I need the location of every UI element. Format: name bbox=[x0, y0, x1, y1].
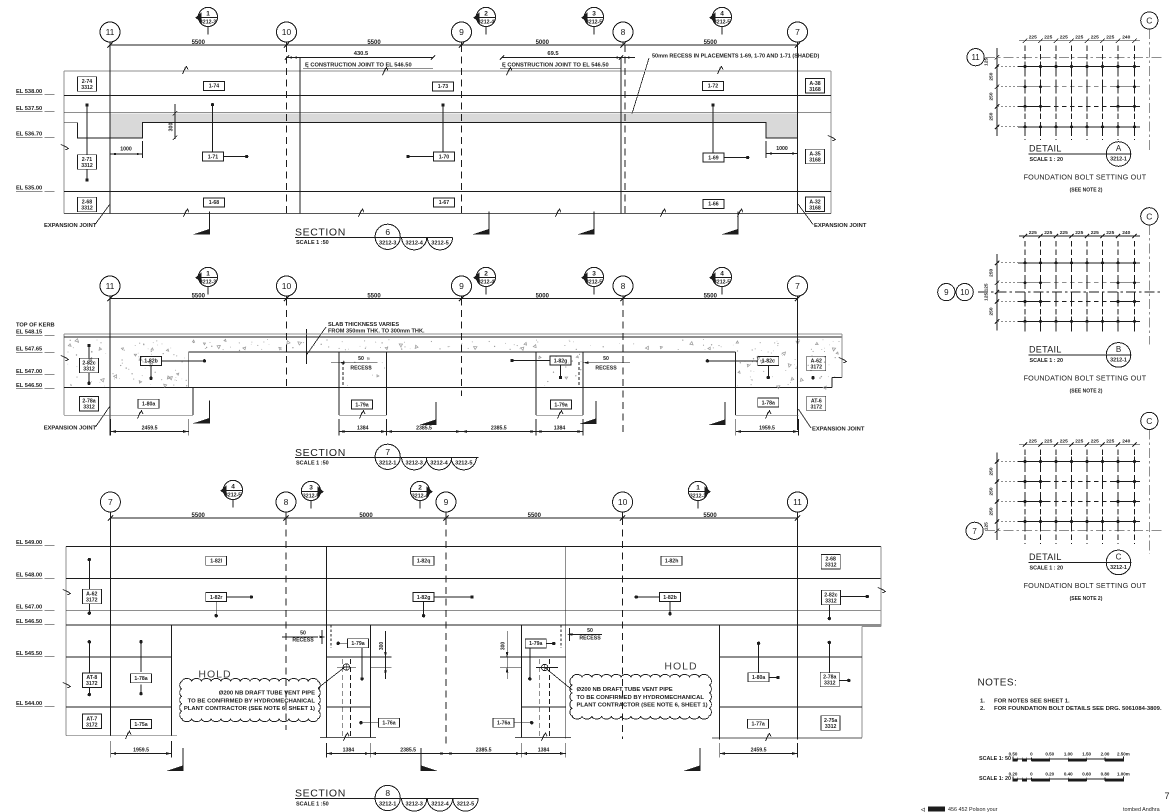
rebar callout 1-82q bbox=[413, 556, 434, 565]
svg-text:0.20: 0.20 bbox=[1045, 772, 1054, 777]
svg-text:9: 9 bbox=[459, 27, 464, 37]
svg-text:C: C bbox=[1116, 553, 1122, 562]
svg-text:3312: 3312 bbox=[81, 85, 93, 91]
detail C top dimension row bbox=[1019, 444, 1140, 446]
dim 1000 right bbox=[766, 153, 798, 155]
svg-text:1-82g: 1-82g bbox=[417, 595, 431, 601]
svg-text:HOLD: HOLD bbox=[664, 661, 697, 673]
label box 1-79a right bbox=[551, 400, 572, 409]
construction joint line at grid 8 bbox=[620, 58, 622, 214]
section cut arrow c bbox=[593, 212, 595, 235]
svg-text:3172: 3172 bbox=[86, 722, 98, 728]
slab line EL 548.00 bbox=[66, 578, 881, 580]
svg-text:1-79a: 1-79a bbox=[351, 641, 364, 647]
svg-text:EL 538.00: EL 538.00 bbox=[16, 89, 42, 95]
vent pipe right (dashed) bbox=[539, 659, 541, 738]
svg-text:1-78a: 1-78a bbox=[134, 676, 147, 682]
svg-text:3312: 3312 bbox=[824, 681, 836, 687]
detail B anchor bolts bbox=[1024, 261, 1027, 264]
rebar callout 2-82c/3312 bbox=[87, 344, 90, 347]
grid bubble 10 section 8 bbox=[613, 492, 633, 512]
detail marker 1/3212-3 section 8 bbox=[688, 481, 707, 500]
svg-text:A: A bbox=[1116, 144, 1122, 153]
svg-text:1-72: 1-72 bbox=[708, 84, 718, 90]
grid bubble 8 bbox=[613, 22, 633, 42]
label box 2-68/3312 s8 right bbox=[821, 554, 840, 569]
svg-text:C: C bbox=[1146, 212, 1152, 222]
svg-text:225: 225 bbox=[1044, 230, 1052, 236]
svg-text:300: 300 bbox=[379, 642, 385, 651]
bottom strip under block A bbox=[64, 414, 193, 416]
detail C grid bubble 7 bbox=[966, 522, 983, 539]
section cut arrow s8 c bbox=[699, 748, 701, 771]
grid line 8 centerline bbox=[624, 45, 626, 214]
svg-text:EXPANSION JOINT: EXPANSION JOINT bbox=[44, 223, 97, 229]
svg-text:3212-4: 3212-4 bbox=[405, 241, 423, 247]
svg-text:5500: 5500 bbox=[192, 294, 206, 300]
svg-text:3212-5: 3212-5 bbox=[431, 241, 448, 247]
detail marker 2/3212-4 bbox=[476, 7, 495, 26]
dim 2385.5 left s7 bbox=[387, 431, 462, 433]
svg-text:1384: 1384 bbox=[343, 747, 355, 753]
svg-text:7: 7 bbox=[108, 497, 113, 507]
detail marker 4/3212-5 bbox=[712, 7, 731, 26]
label box 1-73 bbox=[433, 82, 454, 91]
detail A left dimension line bbox=[996, 48, 998, 136]
svg-text:250: 250 bbox=[989, 487, 995, 495]
label box 1-77a bbox=[748, 719, 769, 728]
svg-text:1-66: 1-66 bbox=[708, 202, 718, 208]
svg-text:1-71: 1-71 bbox=[208, 154, 218, 160]
detail A top dimension row bbox=[1019, 40, 1140, 42]
EL 544.00 line segments bbox=[66, 706, 171, 708]
recess 50 dim left bbox=[331, 362, 378, 364]
svg-text:125: 125 bbox=[984, 292, 990, 300]
svg-text:3312: 3312 bbox=[825, 724, 837, 730]
svg-text:50: 50 bbox=[587, 628, 593, 634]
svg-text:EL 548.15: EL 548.15 bbox=[16, 330, 42, 336]
revision cloud right bbox=[570, 674, 711, 719]
svg-text:5500: 5500 bbox=[704, 294, 718, 300]
svg-text:240: 240 bbox=[1122, 35, 1130, 41]
svg-text:1: 1 bbox=[696, 485, 700, 492]
label box A-32/3168 bbox=[806, 197, 825, 212]
label box 1-79a left bbox=[352, 400, 373, 409]
svg-text:Ę CONSTRUCTION JOINT TO EL 546: Ę CONSTRUCTION JOINT TO EL 546.50 bbox=[502, 63, 609, 69]
right end step bbox=[831, 378, 833, 388]
cloud leader right bbox=[545, 668, 573, 691]
svg-text:50: 50 bbox=[358, 356, 364, 362]
svg-text:1959.5: 1959.5 bbox=[133, 747, 149, 753]
construction joint dimension 69.5 bbox=[502, 57, 621, 59]
svg-text:7: 7 bbox=[1164, 791, 1169, 801]
section 8 sheet bubble 8/3212-1 bbox=[375, 785, 400, 810]
bottom strip under pedestal 2 bbox=[536, 414, 583, 416]
slab line EL 547.00 bbox=[66, 610, 881, 612]
svg-text:1-78a: 1-78a bbox=[762, 400, 775, 406]
bottom strip under right block bbox=[736, 414, 799, 416]
section cut arrow s7 c bbox=[595, 401, 597, 424]
grid line 10 centerline s7 bbox=[286, 299, 288, 391]
grid bubble 11 section 7 bbox=[100, 276, 120, 296]
detail B grid C centerline bbox=[1148, 225, 1150, 345]
section 7 half bubble 3212-4 bbox=[426, 457, 451, 470]
svg-text:225: 225 bbox=[1106, 438, 1114, 444]
svg-text:1-74: 1-74 bbox=[209, 84, 219, 90]
svg-text:7: 7 bbox=[385, 447, 390, 457]
svg-text:7: 7 bbox=[972, 527, 977, 536]
concrete texture pedestal 2 bbox=[538, 354, 581, 386]
svg-text:EL 545.50: EL 545.50 bbox=[16, 651, 42, 657]
section cut arrow d bbox=[737, 212, 739, 235]
svg-text:125: 125 bbox=[984, 57, 990, 65]
slab line EL 546.50 bbox=[66, 624, 881, 626]
svg-text:11: 11 bbox=[106, 281, 115, 291]
detail B sheet bubble B/3212-1 bbox=[1106, 343, 1131, 368]
revision cloud left bbox=[180, 678, 321, 721]
grid line 7 s8 bbox=[109, 512, 111, 736]
svg-text:RECESS: RECESS bbox=[579, 636, 601, 642]
svg-text:3212-4: 3212-4 bbox=[430, 461, 448, 467]
svg-text:4: 4 bbox=[231, 484, 235, 491]
dim 1000 left bbox=[110, 153, 143, 155]
svg-text:2.00: 2.00 bbox=[1101, 752, 1110, 757]
detail B bolt row lines bbox=[1018, 262, 1140, 264]
dim 1959.5 s8 bbox=[111, 753, 172, 755]
svg-text:FOUNDATION BOLT SETTING OUT: FOUNDATION BOLT SETTING OUT bbox=[1024, 374, 1147, 383]
section cut arrow s8 b bbox=[420, 748, 422, 771]
concrete texture pedestal 1 bbox=[342, 357, 385, 386]
svg-text:225: 225 bbox=[1044, 438, 1052, 444]
rebar callout 1-82r bbox=[206, 593, 227, 602]
svg-text:3312: 3312 bbox=[825, 563, 837, 569]
label box A-38/3168 bbox=[806, 79, 825, 94]
rebar callout 1-82b s8 bbox=[660, 593, 681, 602]
svg-text:3212-4: 3212-4 bbox=[431, 802, 449, 808]
svg-text:3212-1: 3212-1 bbox=[1110, 157, 1127, 163]
right boundary step s8 bbox=[862, 626, 881, 628]
detail C anchor bolt lines (dashed) bbox=[1024, 450, 1026, 544]
svg-text:EL 544.00: EL 544.00 bbox=[16, 701, 42, 707]
svg-text:4: 4 bbox=[720, 11, 724, 18]
svg-text:5000: 5000 bbox=[536, 40, 550, 46]
svg-text:1-82q: 1-82q bbox=[417, 559, 431, 565]
svg-text:1384: 1384 bbox=[554, 425, 566, 431]
svg-text:0.50: 0.50 bbox=[1009, 752, 1018, 757]
svg-text:EL 547.00: EL 547.00 bbox=[16, 369, 42, 375]
bottom formwork line segments (grey) bbox=[66, 735, 177, 737]
bottom strip under pedestal 1 bbox=[339, 414, 387, 416]
section 7 half bubble 3212-3 bbox=[402, 457, 427, 470]
svg-text:3212-5: 3212-5 bbox=[225, 493, 241, 499]
construction joint line at grid 10 bbox=[299, 58, 301, 214]
svg-text:250: 250 bbox=[989, 507, 995, 515]
svg-text:FOUNDATION BOLT SETTING OUT: FOUNDATION BOLT SETTING OUT bbox=[1024, 173, 1147, 182]
detail A grid bubble C bbox=[1141, 12, 1158, 29]
svg-text:EXPANSION JOINT: EXPANSION JOINT bbox=[814, 223, 867, 229]
svg-text:225: 225 bbox=[1060, 438, 1068, 444]
slab top line bbox=[64, 336, 842, 338]
svg-text:FOUNDATION BOLT SETTING OUT: FOUNDATION BOLT SETTING OUT bbox=[1024, 581, 1147, 590]
pedestal 1 recess edge (dashed) bbox=[342, 362, 344, 388]
svg-text:2459.5: 2459.5 bbox=[751, 747, 767, 753]
rebar callout AT-8/3172 bbox=[88, 640, 91, 643]
svg-text:DETAIL: DETAIL bbox=[1029, 552, 1062, 562]
pedestal 2 left edge bbox=[535, 352, 537, 388]
detail C anchor bolts bbox=[1024, 460, 1027, 463]
svg-text:0.40: 0.40 bbox=[1064, 772, 1073, 777]
svg-text:5000: 5000 bbox=[536, 294, 550, 300]
dim 2459.5 bbox=[110, 431, 188, 433]
detail marker 3/3212-5 bbox=[584, 7, 603, 26]
svg-text:1.00: 1.00 bbox=[1064, 752, 1073, 757]
svg-text:SCALE 1 : 20: SCALE 1 : 20 bbox=[1030, 157, 1064, 163]
detail B grid bubble C bbox=[1141, 208, 1158, 225]
svg-text:3212-3: 3212-3 bbox=[379, 240, 396, 246]
right outer boundary section 6 bbox=[830, 71, 832, 214]
svg-text:1-82g: 1-82g bbox=[554, 358, 568, 364]
recess band outline bbox=[64, 123, 110, 138]
svg-text:3212-3: 3212-3 bbox=[405, 802, 422, 808]
svg-text:7: 7 bbox=[795, 27, 800, 37]
detail B grid bubble 9 bbox=[938, 284, 955, 301]
placement joint line x=565.7 bbox=[565, 546, 567, 738]
dim 2459.5 s8 bbox=[720, 753, 798, 755]
svg-text:SCALE 1: 20: SCALE 1: 20 bbox=[979, 776, 1011, 782]
svg-text:1-82c: 1-82c bbox=[762, 359, 775, 365]
label box 1-80a bbox=[138, 399, 159, 408]
svg-text:SCALE 1 :50: SCALE 1 :50 bbox=[296, 460, 329, 466]
bottom boundary line section 6 bbox=[64, 213, 831, 215]
detail A bolt row lines bbox=[1018, 66, 1140, 68]
section cut arrow b bbox=[488, 212, 490, 235]
svg-text:10: 10 bbox=[282, 281, 292, 291]
rebar callout 1-76a left bbox=[379, 718, 400, 727]
svg-text:250: 250 bbox=[989, 92, 995, 100]
svg-text:1-80a: 1-80a bbox=[752, 675, 765, 681]
svg-text:3168: 3168 bbox=[809, 87, 821, 93]
grid line 9 centerline s8 bbox=[445, 518, 447, 744]
svg-text:240: 240 bbox=[1122, 230, 1130, 236]
rebar callout 1-70 bbox=[441, 103, 444, 106]
svg-text:SLAB THICKNESS VARIES: SLAB THICKNESS VARIES bbox=[328, 322, 399, 328]
detail A anchor bolt lines (dashed) bbox=[1024, 46, 1026, 140]
svg-text:225: 225 bbox=[1091, 35, 1099, 41]
svg-text:TO BE CONFIRMED BY HYDROMECHAN: TO BE CONFIRMED BY HYDROMECHANICAL bbox=[577, 695, 705, 701]
svg-text:EL 535.00: EL 535.00 bbox=[16, 186, 42, 192]
detail C bolt row lines bbox=[1018, 461, 1140, 463]
grid line 8 centerline s7 bbox=[622, 299, 624, 435]
svg-text:NOTES:: NOTES: bbox=[978, 677, 1018, 688]
line EL 538.00 bbox=[64, 95, 831, 97]
svg-text:◁: ◁ bbox=[920, 807, 925, 812]
line EL 537.50 bbox=[64, 111, 831, 113]
svg-text:1-75a: 1-75a bbox=[134, 722, 147, 728]
grid dimension line section 8 bbox=[110, 517, 797, 519]
dim 1384 left s7 bbox=[339, 431, 387, 433]
svg-text:1384: 1384 bbox=[357, 425, 369, 431]
svg-text:11: 11 bbox=[971, 53, 980, 62]
grid line 11 through section 6 bbox=[109, 45, 111, 214]
pier 1 right edge bbox=[369, 625, 371, 737]
svg-text:300: 300 bbox=[501, 642, 507, 651]
svg-text:(SEE NOTE 2): (SEE NOTE 2) bbox=[1070, 188, 1103, 194]
dim 2385.5 left s8 bbox=[370, 753, 446, 755]
section 7 half bubble 3212-5 bbox=[451, 457, 476, 470]
grid bubble 11 section 8 bbox=[788, 492, 808, 512]
svg-text:EL 549.00: EL 549.00 bbox=[16, 540, 42, 546]
svg-text:1.: 1. bbox=[980, 699, 985, 705]
shaded 50mm recess band (placements 1-69 to 1-71) bbox=[110, 113, 798, 138]
dim 1384 left s8 bbox=[327, 753, 371, 755]
label box AT-7/3172 bbox=[82, 714, 101, 729]
svg-text:10: 10 bbox=[618, 497, 628, 507]
dim 2385.5 right s8 bbox=[446, 753, 521, 755]
vent pipe left (dashed) bbox=[341, 659, 343, 737]
vertical dim 300 pier 2 bbox=[506, 631, 508, 679]
rebar callout 1-79a right s8 bbox=[525, 639, 546, 648]
svg-text:1-70: 1-70 bbox=[439, 154, 449, 160]
svg-text:EL 546.50: EL 546.50 bbox=[16, 383, 42, 389]
placement joint line x=326.5 bbox=[326, 546, 328, 737]
svg-text:3172: 3172 bbox=[811, 365, 823, 371]
grid line 10 centerline bbox=[286, 45, 288, 214]
section 6 sheet half bubble 3212-4 bbox=[402, 237, 427, 250]
ledge lines pier 1 bbox=[370, 666, 391, 668]
svg-text:1: 1 bbox=[206, 11, 210, 18]
svg-text:2459.5: 2459.5 bbox=[142, 425, 158, 431]
detail marker 2/3212-4 section 8 bbox=[410, 481, 429, 500]
grid line 9 centerline bbox=[461, 45, 463, 214]
grid bubble 10 section 7 bbox=[277, 276, 297, 296]
detail A anchor bolts bbox=[1024, 65, 1027, 68]
grid line 9 centerline s7 bbox=[461, 299, 463, 397]
label box 2-74/3312 bbox=[78, 77, 97, 92]
rebar callout 1-82b bbox=[141, 356, 162, 365]
svg-text:5000: 5000 bbox=[359, 513, 373, 519]
pedestal 1 right edge bbox=[386, 352, 388, 388]
svg-text:RECESS: RECESS bbox=[292, 638, 314, 644]
svg-text:3172: 3172 bbox=[811, 405, 823, 411]
svg-text:240: 240 bbox=[1122, 438, 1130, 444]
svg-text:0.60: 0.60 bbox=[1082, 772, 1091, 777]
rebar callout 1-82l bbox=[206, 556, 227, 565]
label box 2-78a/3312 s7 bbox=[80, 396, 99, 411]
grid bubble 7 section 7 bbox=[788, 276, 808, 296]
svg-text:PLANT CONTRACTOR (SEE NOTE 6,: PLANT CONTRACTOR (SEE NOTE 6, SHEET 1) bbox=[184, 706, 315, 712]
concrete texture top slab band bbox=[192, 339, 734, 351]
kerb top line EL 548.15 (grey) bbox=[64, 333, 842, 335]
svg-text:3312: 3312 bbox=[83, 405, 95, 411]
svg-text:3212-5: 3212-5 bbox=[457, 802, 474, 808]
grid line 11 s8 bbox=[797, 512, 799, 739]
section 8 half bubble 3212-5 bbox=[453, 799, 478, 812]
grid bubble 7 bbox=[788, 22, 808, 42]
detail B grid bubble 10 bbox=[956, 284, 973, 301]
svg-text:3212-1: 3212-1 bbox=[1110, 358, 1127, 364]
vertical dim 300 recess depth bbox=[174, 104, 176, 139]
svg-text:Ø200 NB DRAFT TUBE VENT PIPE: Ø200 NB DRAFT TUBE VENT PIPE bbox=[219, 691, 315, 697]
grid bubble 11 bbox=[100, 22, 120, 42]
section 8 half bubble 3212-4 bbox=[427, 799, 452, 812]
svg-text:225: 225 bbox=[1044, 35, 1052, 41]
rebar callout 1-82c bbox=[758, 356, 779, 365]
svg-text:250: 250 bbox=[989, 112, 995, 120]
svg-text:C: C bbox=[1146, 416, 1152, 426]
svg-text:2: 2 bbox=[418, 485, 422, 492]
svg-text:9: 9 bbox=[444, 497, 449, 507]
detail B anchor bolt lines (dashed) bbox=[1024, 241, 1026, 334]
svg-text:2: 2 bbox=[484, 11, 488, 18]
section 6 sheet bubble 6/3212-3 bbox=[375, 224, 400, 249]
svg-text:tombed Andhra: tombed Andhra bbox=[1123, 807, 1160, 812]
svg-text:1-82l: 1-82l bbox=[210, 559, 222, 565]
grid bubble 8 section 7 bbox=[613, 276, 633, 296]
label box A-35/3168 bbox=[806, 149, 825, 164]
svg-text:SCALE 1: 50: SCALE 1: 50 bbox=[979, 756, 1011, 762]
svg-text:1-73: 1-73 bbox=[438, 84, 448, 90]
svg-text:TO BE CONFIRMED BY HYDROMECHAN: TO BE CONFIRMED BY HYDROMECHANICAL bbox=[188, 698, 316, 704]
svg-text:1-82h: 1-82h bbox=[665, 559, 679, 565]
svg-text:1.00m: 1.00m bbox=[1117, 772, 1130, 777]
svg-text:EXPANSION JOINT: EXPANSION JOINT bbox=[812, 427, 865, 433]
grid line 7 section 7 bbox=[797, 299, 799, 431]
svg-text:3: 3 bbox=[592, 11, 596, 18]
svg-text:225: 225 bbox=[1075, 230, 1083, 236]
detail C left dimension line bbox=[996, 453, 998, 540]
svg-text:3: 3 bbox=[592, 271, 596, 278]
svg-text:EXPANSION JOINT: EXPANSION JOINT bbox=[44, 426, 97, 432]
svg-text:SCALE 1 : 20: SCALE 1 : 20 bbox=[1030, 566, 1064, 572]
detail marker 3/3212-5 section 7 bbox=[584, 267, 603, 286]
grid dimension line section 7 bbox=[110, 298, 798, 300]
svg-text:3212-3: 3212-3 bbox=[200, 280, 216, 286]
detail A sheet bubble A/3212-1 bbox=[1106, 142, 1131, 167]
svg-text:(SEE NOTE 2): (SEE NOTE 2) bbox=[1070, 389, 1103, 395]
svg-text:3212-5: 3212-5 bbox=[586, 280, 602, 286]
svg-text:3168: 3168 bbox=[809, 158, 821, 164]
grid line 8 centerline s8 bbox=[285, 518, 287, 730]
detail A intersection ticks bbox=[1024, 62, 1026, 72]
rebar callout 1-78a s8 bbox=[139, 640, 142, 643]
svg-text:3172: 3172 bbox=[86, 681, 98, 687]
detail B intersection ticks bbox=[1024, 258, 1026, 268]
svg-text:225: 225 bbox=[1060, 35, 1068, 41]
grid dimension line section 6 bbox=[110, 44, 798, 46]
section cut arrow s7 a bbox=[208, 401, 210, 424]
svg-text:50: 50 bbox=[603, 356, 609, 362]
detail marker 1/3212-3 bbox=[198, 7, 217, 26]
svg-text:3212-4: 3212-4 bbox=[412, 494, 428, 500]
concrete texture left block bbox=[67, 338, 187, 387]
svg-text:250: 250 bbox=[989, 72, 995, 80]
detail marker 4/3212-5 section 7 bbox=[712, 267, 731, 286]
label box 2-68/3312 bbox=[78, 197, 97, 212]
svg-text:EL 548.00: EL 548.00 bbox=[16, 573, 42, 579]
svg-text:9: 9 bbox=[944, 288, 949, 297]
svg-text:2385.5: 2385.5 bbox=[491, 425, 507, 431]
svg-text:2385.5: 2385.5 bbox=[476, 747, 492, 753]
label box 1-67 bbox=[434, 198, 455, 207]
block A right edge bbox=[188, 352, 190, 388]
pier 2 left edge bbox=[520, 625, 522, 737]
leader for 50mm recess note bbox=[631, 58, 649, 117]
grid line 11 section 7 bbox=[109, 299, 111, 436]
svg-text:DETAIL: DETAIL bbox=[1029, 144, 1062, 154]
svg-text:5500: 5500 bbox=[704, 40, 718, 46]
svg-text:2.: 2. bbox=[980, 706, 985, 712]
pedestal 2 recess edge (dashed) bbox=[578, 362, 580, 388]
